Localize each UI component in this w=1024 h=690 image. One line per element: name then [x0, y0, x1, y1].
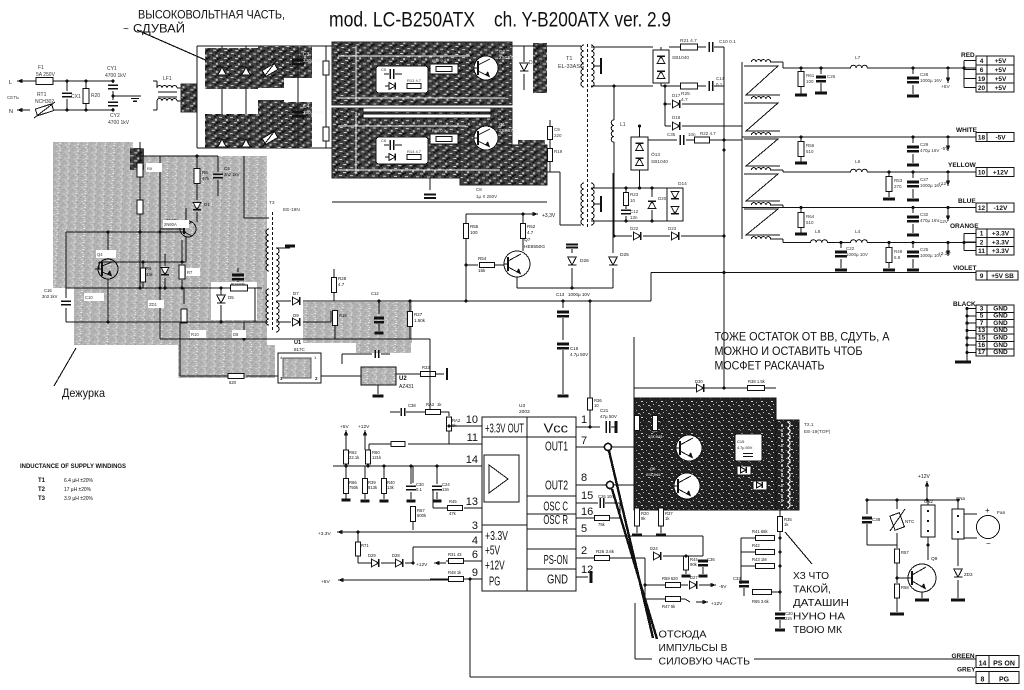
svg-text:R27: R27	[414, 312, 423, 317]
svg-text:D23: D23	[668, 226, 677, 231]
ORANGE connector bus	[963, 233, 965, 250]
wire OUT2 to driver	[614, 484, 637, 486]
resistor R9 33k	[141, 268, 146, 282]
annotation leader line Дежурка	[54, 348, 76, 386]
svg-text:R59 620: R59 620	[662, 576, 679, 581]
ground R58	[890, 613, 904, 616]
bridge area frame	[197, 45, 332, 47]
svg-text:R15 0.3: R15 0.3	[432, 128, 447, 133]
svg-text:GREY: GREY	[957, 667, 976, 674]
capacitor C12f	[378, 301, 380, 314]
wire L to fuse	[26, 80, 36, 82]
resistor R61b on pin11	[391, 442, 405, 447]
svg-text:470µ 16V: 470µ 16V	[920, 218, 939, 223]
OUT2 probe circle	[606, 481, 613, 488]
transistor Q6 2SC945	[674, 473, 700, 499]
wire snubber bus to driver	[723, 273, 725, 389]
svg-text:D29: D29	[368, 553, 376, 558]
output winding W4	[751, 168, 770, 170]
svg-text:+3.3V OUT: +3.3V OUT	[485, 421, 524, 436]
capacitor CY1 4700 1kV	[112, 81, 114, 83]
ground U2	[377, 385, 379, 394]
wire +5V to R48	[352, 579, 448, 581]
standby section highlight left (gray region)	[53, 142, 133, 288]
svg-text:R56: R56	[806, 143, 815, 148]
net arrow +5V	[946, 66, 949, 69]
resistor R62 22.1k	[345, 446, 347, 450]
ground C27	[907, 199, 919, 202]
svg-text:-5V: -5V	[719, 584, 727, 590]
snubber resistor R19	[549, 140, 551, 148]
capacitor C4s 2n2 1kV	[217, 156, 219, 172]
svg-text:R61: R61	[806, 73, 815, 78]
wire D7 to +5VSB rail	[303, 300, 651, 302]
svg-text:-12V: -12V	[938, 219, 949, 225]
wire AC N to bridge	[153, 109, 157, 111]
dark patch bridge right	[284, 46, 312, 78]
svg-text:+3.3V: +3.3V	[938, 251, 951, 257]
resistor R71	[357, 532, 359, 542]
wire standby base	[98, 262, 100, 269]
svg-text:СДУВАЙ: СДУВАЙ	[133, 21, 185, 36]
svg-text:ТАКОЙ,: ТАКОЙ,	[793, 583, 831, 596]
wire T3 top	[244, 217, 269, 219]
fuse F1 5A 250V	[36, 78, 53, 85]
svg-text:C21: C21	[600, 408, 609, 413]
svg-text:D8: D8	[233, 332, 239, 337]
ground R64	[795, 233, 807, 236]
svg-text:+5V: +5V	[995, 58, 1007, 65]
svg-text:C16: C16	[44, 288, 52, 293]
resistor RA2 1k	[426, 410, 441, 415]
standby section highlight lower-left (gray region)	[74, 288, 223, 345]
wire winding tap +12V	[770, 169, 783, 171]
svg-text:C12: C12	[630, 209, 639, 214]
svg-text:C26 10n: C26 10n	[598, 494, 615, 499]
wire standby vertical 66	[65, 232, 67, 288]
resistor R12 0.3	[430, 64, 458, 74]
resistor R18	[333, 311, 338, 326]
svg-text:ИМПУЛЬСЫ В: ИМПУЛЬСЫ В	[659, 642, 728, 654]
resistor R36 10	[588, 398, 593, 410]
ground C26	[815, 92, 827, 95]
svg-text:+5V: +5V	[995, 76, 1007, 83]
ground C32	[907, 234, 919, 237]
svg-text:ORANGE: ORANGE	[950, 223, 979, 230]
svg-text:C38: C38	[408, 403, 416, 408]
capacitor C35 10n	[648, 139, 677, 141]
wire D9 out	[303, 321, 331, 323]
resistor R60 121k	[364, 446, 366, 450]
svg-text:HE8550G: HE8550G	[524, 244, 545, 250]
net arrow +12V rail left	[364, 430, 366, 446]
capacitor C26	[819, 66, 822, 69]
connector table ORANGE +3.3V pins 1 2 11	[976, 229, 987, 238]
wire T1 secondary top	[591, 46, 653, 48]
label cutout Q4	[96, 250, 116, 258]
dark patch bridge upper-left	[205, 48, 258, 89]
resistor R23 10	[625, 188, 627, 192]
svg-text:20: 20	[978, 85, 986, 92]
svg-text:R5: R5	[147, 166, 153, 171]
svg-text:330µ 200V: 330µ 200V	[303, 110, 325, 115]
svg-text:NCH302: NCH302	[35, 99, 54, 105]
ground ZD3	[951, 599, 965, 602]
wire standby rail top	[139, 142, 141, 288]
resistor R27 1.50k	[409, 301, 411, 311]
svg-text:R58: R58	[901, 585, 909, 590]
resistor R64 510	[799, 206, 802, 209]
resistor R51 75k on OSC R	[595, 516, 610, 521]
primary switcher block lower (dark region)	[332, 108, 512, 178]
resistor R7	[181, 240, 183, 262]
resistor R20b 9k below driver	[635, 508, 640, 526]
RED connector bus	[963, 61, 965, 88]
svg-text:11: 11	[978, 248, 985, 255]
svg-text:-12V: -12V	[994, 205, 1008, 212]
svg-text:5: 5	[581, 523, 587, 535]
wire Q9 collector	[927, 537, 929, 560]
svg-text:+5V: +5V	[340, 424, 349, 430]
svg-text:2: 2	[980, 239, 984, 246]
svg-text:510: 510	[806, 220, 814, 225]
svg-text:Q2: Q2	[499, 49, 506, 54]
svg-text:C5: C5	[381, 67, 387, 72]
bus bar upper	[363, 108, 491, 112]
diode D29	[358, 562, 371, 564]
ground R53	[883, 198, 895, 201]
capacitor CX1	[66, 81, 68, 91]
ground R40	[380, 500, 389, 503]
svg-text:Q4: Q4	[97, 252, 103, 257]
svg-text:R14 4.7: R14 4.7	[407, 149, 422, 154]
svg-text:R52: R52	[527, 224, 536, 229]
label cutout D8	[232, 330, 246, 338]
svg-text:4.7: 4.7	[681, 97, 688, 103]
svg-text:2n2 1kV: 2n2 1kV	[224, 172, 240, 177]
standby section highlight bottom tail (gray region)	[178, 345, 275, 378]
svg-text:R23: R23	[630, 192, 639, 197]
svg-text:0.1: 0.1	[716, 82, 723, 87]
svg-text:19: 19	[978, 76, 986, 83]
wire OUT1 to driver	[612, 446, 637, 448]
svg-text:9: 9	[980, 273, 984, 280]
white wire trace upper block a	[338, 55, 470, 57]
white island D19	[737, 466, 751, 475]
wire standby low	[66, 321, 197, 323]
inductor L8	[811, 240, 828, 243]
connector table RED +5V pins 4 6 19 20	[976, 56, 987, 65]
capacitor C38 on pin10 row	[400, 408, 402, 416]
svg-text:R33: R33	[422, 365, 430, 370]
T1 core mark upper	[593, 65, 600, 67]
svg-text:1000µ 10V: 1000µ 10V	[568, 292, 590, 297]
svg-text:6.4 µH ±20%: 6.4 µH ±20%	[64, 478, 93, 484]
resistor R35a 1k above driver	[653, 416, 658, 431]
wire RT1 to CY2	[53, 109, 113, 111]
wire CN2 top	[927, 500, 929, 505]
wire GREEN rail right segment	[754, 658, 976, 660]
svg-text:3.9 µH ±20%: 3.9 µH ±20%	[64, 496, 93, 502]
resistor R1 330k	[325, 46, 327, 148]
terminator bar R33	[446, 368, 448, 380]
ground C20	[775, 629, 785, 632]
svg-text:ОТСЮДА: ОТСЮДА	[659, 629, 707, 641]
svg-text:2: 2	[581, 545, 587, 557]
annotation arrow to R35	[785, 532, 812, 564]
thermistor NTC	[896, 500, 898, 509]
capacitor C4 330u 200V	[292, 111, 304, 114]
svg-text:+3.3V: +3.3V	[485, 528, 508, 543]
svg-text:R41 68k: R41 68k	[752, 529, 769, 534]
wire pin4 riser	[412, 547, 414, 563]
svg-text:ДАТАШИН: ДАТАШИН	[793, 597, 849, 609]
shunt regulator U2 AZ431	[361, 367, 396, 385]
svg-text:R57: R57	[901, 550, 909, 555]
svg-text:U2: U2	[399, 376, 407, 382]
wire -5V rail	[742, 136, 976, 138]
svg-text:8: 8	[581, 472, 587, 484]
wire T1 lower sec top	[591, 187, 667, 189]
primary bottom rail	[332, 201, 547, 203]
resistor R3	[137, 163, 143, 177]
svg-text:R18: R18	[339, 313, 347, 318]
svg-text:9: 9	[472, 567, 478, 579]
svg-text:VIOLET: VIOLET	[953, 265, 977, 272]
resistor R65 3.6k	[753, 590, 772, 595]
ground C36	[699, 575, 708, 578]
svg-text:+12V: +12V	[358, 424, 370, 430]
wire VIOLET riser	[650, 273, 652, 302]
resistor R49 6.8	[887, 241, 890, 244]
svg-text:R65 3.6k: R65 3.6k	[752, 599, 770, 604]
svg-text:R55: R55	[470, 224, 479, 229]
svg-text:INDUCTANCE OF SUPPLY WINDINGS: INDUCTANCE OF SUPPLY WINDINGS	[20, 463, 126, 470]
svg-text:D7: D7	[293, 291, 299, 296]
resistor R58 fan	[896, 578, 898, 583]
svg-text:11: 11	[467, 432, 478, 444]
label cutout ZD1	[148, 300, 164, 308]
svg-text:НУНО НА: НУНО НА	[793, 611, 845, 623]
svg-text:Ö13: Ö13	[651, 151, 660, 158]
svg-text:13: 13	[466, 496, 478, 508]
resistor RA2 9k	[448, 412, 450, 416]
svg-text:T2.1: T2.1	[804, 422, 814, 428]
net arrow +3.3V	[946, 241, 949, 244]
connector CN2	[921, 505, 935, 537]
wire PG drop	[469, 579, 471, 677]
connector table GREY PG pin 8	[976, 672, 989, 684]
net arrow +12V	[946, 170, 949, 173]
resistor R38 1.5k	[748, 386, 765, 391]
dark patch right of Q2	[533, 43, 547, 93]
resistor R20	[85, 81, 87, 88]
svg-text:D1: D1	[204, 202, 210, 207]
wire standby horizontal 232	[66, 231, 186, 233]
svg-text:BLACK: BLACK	[953, 301, 976, 308]
transformer T2.1 EE-19(TOP) winding area (dark)	[776, 420, 799, 510]
T1 core mark lower	[593, 203, 600, 205]
svg-text:OUT1: OUT1	[545, 439, 568, 454]
ground C24	[433, 500, 442, 503]
svg-text:T3: T3	[38, 496, 46, 502]
resistor R66 750k	[345, 464, 347, 478]
resistor R42	[778, 550, 781, 553]
output winding W1	[751, 60, 770, 62]
ground T3 aux	[276, 247, 290, 249]
svg-text:C10: C10	[85, 295, 93, 300]
diode D4	[389, 83, 395, 90]
resistor R14 4.7	[407, 155, 421, 160]
resistor R57 500k	[412, 466, 414, 483]
svg-text:C26: C26	[827, 74, 836, 79]
svg-text:R42: R42	[752, 543, 760, 548]
svg-text:N: N	[9, 109, 13, 115]
svg-text:R48 1k: R48 1k	[448, 570, 462, 575]
capacitor C6 1.2u 100V	[389, 140, 391, 150]
inductor L4	[851, 240, 868, 243]
wire D5 row out	[197, 321, 268, 323]
diode D2	[523, 46, 525, 62]
label cutout R10	[190, 330, 206, 338]
svg-text:SB1040: SB1040	[672, 55, 689, 61]
svg-text:+12V: +12V	[993, 170, 1009, 177]
resistor R61 100	[799, 66, 802, 69]
svg-text:R22 4.7: R22 4.7	[700, 131, 716, 136]
wire half-bridge mid to T1	[547, 171, 560, 173]
svg-text:2SC945: 2SC945	[648, 434, 663, 439]
svg-text:R47 5k: R47 5k	[662, 604, 676, 609]
dual diode U D SB1040	[653, 50, 669, 83]
capacitor C8 1u X 250V	[429, 178, 431, 190]
svg-text:18: 18	[978, 135, 986, 142]
wire R41 chain left bus	[740, 538, 742, 584]
wire PG to GREY	[470, 676, 976, 678]
svg-text:−: −	[986, 539, 991, 548]
bridge diode D upper-right	[242, 67, 251, 75]
svg-text:R45: R45	[449, 499, 457, 504]
dark patch bridge right-low	[284, 102, 312, 148]
label cutout C10s	[84, 293, 104, 301]
svg-text:C16: C16	[570, 346, 579, 351]
svg-text:22n: 22n	[785, 616, 793, 621]
resistor R55 100	[465, 214, 467, 223]
resistor R13 4.7	[407, 84, 421, 89]
svg-text:CN2: CN2	[924, 499, 933, 504]
wire standby 262 row	[99, 261, 186, 263]
svg-text:R71: R71	[361, 543, 369, 548]
svg-text:YELLOW: YELLOW	[948, 162, 977, 169]
resistor R26 3.6k on PS-ON	[595, 556, 610, 561]
capacitor C3 330u 200V	[297, 46, 299, 148]
svg-text:2SC5763: 2SC5763	[499, 55, 518, 60]
svg-text:СИЛОВУЮ ЧАСТЬ: СИЛОВУЮ ЧАСТЬ	[659, 656, 751, 668]
wire pin5 drop	[702, 536, 704, 556]
diode D28	[381, 562, 395, 564]
wire CY junction to ground	[112, 91, 114, 100]
wire standby mosfet drain	[185, 208, 187, 221]
svg-text:17: 17	[978, 349, 986, 356]
diode D17	[664, 86, 666, 104]
capacitor C14 0.1	[708, 81, 710, 91]
svg-text:МОСФЕТ РАСКАЧАТЬ: МОСФЕТ РАСКАЧАТЬ	[715, 359, 825, 373]
svg-text:16: 16	[581, 506, 593, 518]
driver stage block (dark region)	[634, 398, 776, 510]
resistor R21 4.7	[669, 46, 680, 48]
wire +3.3V feed	[466, 213, 530, 215]
wire primary top rail to T1	[512, 45, 581, 47]
output winding bottom coil	[751, 237, 770, 239]
svg-text:PS-ON: PS-ON	[544, 552, 568, 567]
svg-text:1.50k: 1.50k	[414, 318, 426, 323]
svg-text:PG: PG	[999, 677, 1010, 684]
diode D22	[614, 235, 632, 237]
svg-text:Q7: Q7	[524, 237, 531, 243]
svg-text:D25: D25	[620, 252, 629, 258]
svg-text:R12 0.3: R12 0.3	[432, 58, 447, 63]
white island lower driver cell	[376, 137, 428, 164]
svg-text:R49: R49	[894, 249, 903, 254]
svg-text:L4: L4	[855, 229, 861, 235]
resistor R34 9k above driver	[635, 416, 640, 431]
svg-text:C4: C4	[224, 166, 230, 171]
svg-text:500k: 500k	[417, 513, 427, 518]
resistor R53 270	[887, 170, 890, 173]
capacitor C9s	[237, 268, 239, 272]
wire Q9 base	[897, 577, 908, 579]
svg-text:ZD3: ZD3	[964, 572, 973, 577]
svg-text:2SC5763: 2SC5763	[499, 128, 518, 133]
svg-text:D28: D28	[392, 553, 400, 558]
ground C29	[907, 164, 919, 167]
white wire trace lower block a	[338, 125, 466, 127]
svg-text:17 µH ±20%: 17 µH ±20%	[64, 487, 91, 493]
wire fuse to CX1	[53, 80, 113, 82]
ground C25	[907, 269, 919, 272]
dual diode D14	[667, 188, 683, 221]
svg-text:-5V: -5V	[995, 135, 1006, 142]
svg-text:PG: PG	[489, 574, 500, 589]
svg-text:C12: C12	[371, 291, 379, 296]
svg-text:R54: R54	[478, 256, 487, 261]
snubber capacitor C9 220	[549, 120, 551, 126]
bridge diode D upper-left	[218, 67, 227, 75]
svg-text:10: 10	[630, 198, 636, 203]
svg-text:T2: T2	[38, 487, 46, 493]
OUT1 probe circle	[604, 443, 611, 450]
svg-text:ХЗ ЧТО: ХЗ ЧТО	[793, 570, 829, 582]
optocoupler U1	[278, 353, 321, 383]
transistor Q2 2SC5763	[474, 56, 498, 80]
wire PS-ON riser	[644, 558, 646, 599]
svg-text:8: 8	[981, 677, 985, 684]
svg-text:R21 4.7: R21 4.7	[680, 38, 697, 44]
svg-text:15k: 15k	[478, 268, 486, 273]
svg-text:L: L	[9, 80, 12, 86]
AC line input N	[17, 109, 30, 111]
bridge diode D lower-right	[242, 139, 251, 147]
svg-text:GREEN: GREEN	[952, 653, 975, 660]
svg-text:+12V: +12V	[416, 562, 428, 568]
svg-text:+12V: +12V	[485, 558, 505, 573]
zener ZD3	[957, 539, 959, 566]
ground symbol GND bus	[966, 352, 968, 361]
winding left bus	[741, 62, 743, 239]
inductor L6	[851, 169, 868, 172]
svg-text:22.1k: 22.1k	[349, 455, 360, 460]
svg-text:4700 1kV: 4700 1kV	[105, 73, 127, 79]
svg-text:D26: D26	[580, 258, 589, 264]
